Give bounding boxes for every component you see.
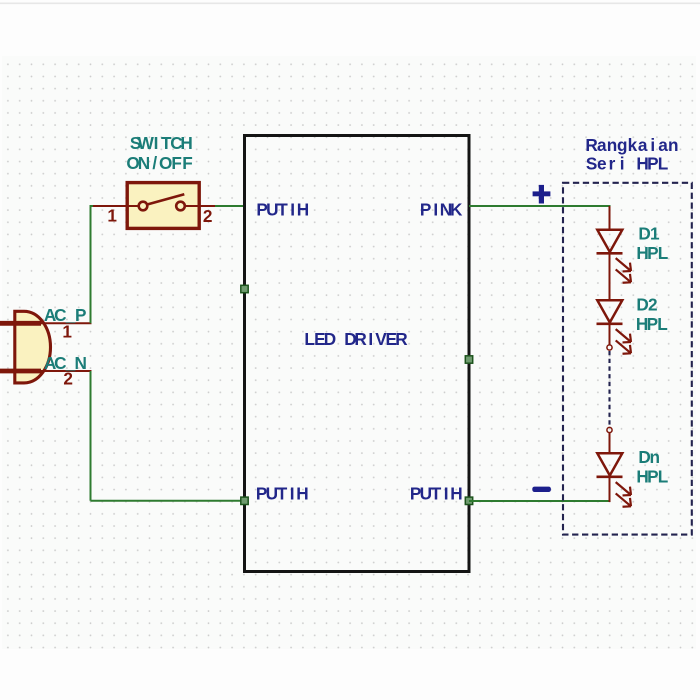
- svg-text:2: 2: [203, 206, 213, 226]
- switch SW1 pin 1 line: [93, 205, 139, 207]
- svg-text:Dn: Dn: [638, 447, 660, 467]
- dashed enclosure Rangkaian Seri HPL: [563, 183, 692, 535]
- switch SW1 pin 2 line: [185, 205, 215, 207]
- wire bottom PUTIH to LED chain cathode: [469, 500, 611, 502]
- LED Dn triangle: [597, 453, 622, 475]
- LED D1 cathode bar: [597, 252, 623, 255]
- svg-text:D2: D2: [636, 295, 657, 315]
- wire AC_P horizontal to switch pin 1: [91, 205, 95, 207]
- svg-text:D1: D1: [638, 224, 660, 244]
- svg-text:1: 1: [62, 322, 72, 342]
- LED driver U1 box: [245, 136, 470, 572]
- pin square left middle: [241, 285, 248, 292]
- LED D2 triangle: [597, 300, 622, 322]
- wire AC_N horizontal to LED driver bottom PUTIH: [91, 500, 245, 502]
- svg-text:2: 2: [63, 369, 73, 389]
- svg-text:PUTIH: PUTIH: [410, 484, 463, 504]
- pin 2 line of J1: [41, 370, 92, 372]
- svg-text:1: 1: [107, 206, 117, 226]
- LED Dn cathode bar: [597, 475, 623, 478]
- wire anode drop to D1: [609, 206, 611, 229]
- wire junction to Dn: [609, 433, 611, 454]
- wire D2 to junction circle: [609, 325, 611, 345]
- pin 1 line of J1: [41, 322, 92, 324]
- svg-text:HPL: HPL: [636, 243, 668, 263]
- pin square right middle: [465, 356, 472, 363]
- LED Dn emission arrows: [612, 478, 635, 511]
- LED D2 cathode bar: [597, 322, 623, 325]
- pin 1 stub of J1 (thick): [0, 321, 41, 326]
- pin square bottom-right PUTIH: [465, 497, 472, 504]
- switch SW1 contact circle left: [139, 202, 148, 211]
- svg-text:PUTIH: PUTIH: [256, 484, 309, 504]
- LED D1 emission arrows: [612, 254, 635, 287]
- wire PINK output to LED chain anode: [469, 205, 611, 207]
- wire D1 to D2: [609, 254, 611, 300]
- wire AC_P vertical: [90, 205, 92, 323]
- wire Dn cathode down: [609, 478, 611, 503]
- pin 2 stub of J1 (thick): [0, 369, 41, 374]
- svg-text:HPL: HPL: [636, 314, 668, 334]
- svg-text:PUTIH: PUTIH: [256, 200, 309, 220]
- svg-text:Rangkaian: Rangkaian: [585, 135, 678, 155]
- wire switch pin2 to LED driver PUTIH input: [215, 205, 244, 207]
- switch SW1 lever: [148, 194, 185, 204]
- svg-text:SWITCH: SWITCH: [130, 133, 193, 153]
- LED D1 triangle: [597, 230, 622, 252]
- pin square bottom-left PUTIH: [241, 497, 248, 504]
- minus polarity mark: [532, 487, 551, 492]
- connector J1 AC input body: [15, 311, 51, 383]
- LED D2 emission arrows: [612, 325, 635, 358]
- svg-text:HPL: HPL: [636, 467, 668, 487]
- switch SW1 body: [127, 183, 199, 229]
- switch SW1 contact circle right: [176, 202, 185, 211]
- svg-text:PINK: PINK: [420, 200, 463, 220]
- plus polarity mark: [533, 185, 551, 204]
- junction circle upper: [607, 345, 612, 350]
- wire AC_N vertical: [90, 371, 92, 501]
- svg-text:ON/OFF: ON/OFF: [126, 153, 192, 173]
- junction circle lower: [607, 427, 612, 432]
- dashed continuation wire: [608, 351, 610, 427]
- svg-text:LED DRIVER: LED DRIVER: [304, 329, 408, 349]
